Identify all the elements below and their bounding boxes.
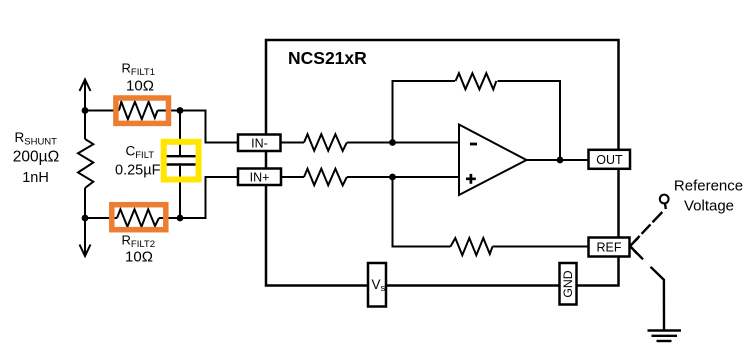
svg-text:1nH: 1nH bbox=[22, 170, 49, 186]
svg-text:OUT: OUT bbox=[596, 153, 623, 167]
svg-text:Voltage: Voltage bbox=[684, 198, 734, 215]
svg-text:10Ω: 10Ω bbox=[126, 78, 154, 95]
svg-text:REF: REF bbox=[597, 241, 622, 255]
svg-text:Reference: Reference bbox=[674, 178, 743, 195]
svg-text:200µΩ: 200µΩ bbox=[13, 149, 59, 166]
svg-text:NCS21xR: NCS21xR bbox=[288, 48, 367, 68]
svg-text:0.25µF: 0.25µF bbox=[115, 163, 161, 179]
svg-text:IN-: IN- bbox=[251, 136, 268, 150]
svg-text:GND: GND bbox=[561, 270, 575, 297]
svg-text:IN+: IN+ bbox=[250, 170, 270, 184]
svg-text:10Ω: 10Ω bbox=[125, 249, 153, 266]
